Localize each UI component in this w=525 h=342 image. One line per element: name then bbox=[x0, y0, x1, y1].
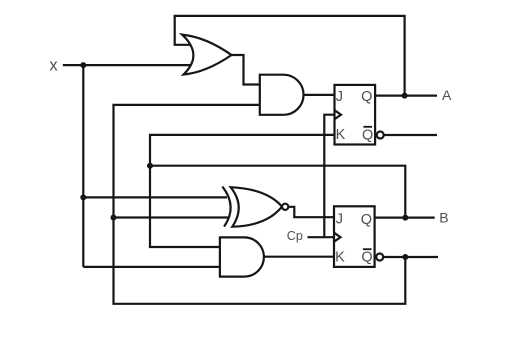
wire: AND2 output to FF2 K bbox=[264, 256, 334, 258]
wire: x input to OR gate lower input bbox=[63, 64, 192, 66]
svg-text:Q: Q bbox=[362, 127, 373, 143]
node: x input junction bbox=[80, 62, 86, 68]
node: FF2.Qbar junction bbox=[402, 254, 408, 260]
wire: x vertical bus down to AND2 row bbox=[82, 65, 84, 267]
flip-flop U2 pin label K bbox=[335, 249, 345, 265]
wire: FF2.Q feedback up and left bbox=[150, 166, 405, 218]
node: FF2.Q junction bbox=[402, 215, 408, 221]
label Cp bbox=[287, 229, 303, 243]
svg-text:J: J bbox=[336, 211, 343, 227]
svg-text:K: K bbox=[336, 127, 346, 143]
flip-flop U2 pin label J bbox=[336, 211, 343, 227]
svg-text:B: B bbox=[439, 210, 448, 226]
svg-text:x: x bbox=[49, 56, 58, 74]
svg-text:A: A bbox=[442, 87, 452, 103]
xnor-gate G3 body bbox=[231, 187, 282, 227]
node: Qbar2 tap to XNOR lower input bbox=[111, 215, 117, 221]
flip-flop U2 Qbar bubble bbox=[376, 254, 383, 261]
wire: Cp to clock chain bbox=[308, 236, 325, 238]
node: junction of Q2 feedback on vertical bbox=[147, 163, 153, 169]
wire: x bus to AND2 lower input bbox=[83, 266, 220, 268]
wire: XNOR output jog to FF2 J bbox=[288, 207, 334, 217]
flip-flop U2 clock triangle bbox=[334, 233, 341, 242]
input label x bbox=[49, 56, 58, 74]
wire: FF2.Qbar stub bbox=[383, 256, 438, 258]
flip-flop U1 Qbar overline bbox=[363, 126, 372, 128]
wire: OR output jog to AND1 upper input bbox=[232, 55, 260, 85]
wire: FF1.Q output stub to A bbox=[375, 94, 437, 96]
svg-text:Q: Q bbox=[361, 250, 372, 266]
flip-flop U1 pin label J bbox=[336, 89, 343, 105]
output label B bbox=[439, 210, 448, 226]
svg-text:Q: Q bbox=[361, 89, 372, 105]
wire: FF2.Q output stub to B bbox=[375, 217, 435, 219]
flip-flop U2 pin label Q bbox=[361, 212, 372, 228]
and-gate G4 bbox=[220, 237, 264, 276]
node: x tap to XNOR bbox=[80, 194, 86, 200]
flip-flop U1 Qbar bubble bbox=[377, 132, 384, 139]
wire: Qbar2 net - AND1 lower input, down left side, bottom feedback bbox=[114, 105, 406, 304]
xnor-gate G3 input arc bbox=[222, 187, 230, 227]
wire: clock chain FF1 to FF2 bbox=[324, 115, 334, 238]
xnor-gate G3 output bubble bbox=[282, 204, 288, 210]
output label A bbox=[442, 87, 452, 103]
wire: feedback FF1.Q up over top to OR gate top input bbox=[175, 16, 405, 96]
svg-text:Q: Q bbox=[361, 212, 372, 228]
or-gate G1 bbox=[182, 35, 232, 75]
flip-flop U1 body bbox=[335, 85, 376, 145]
wire: FF1.Qbar stub bbox=[384, 134, 437, 136]
svg-text:J: J bbox=[336, 89, 343, 105]
svg-text:K: K bbox=[335, 249, 345, 265]
wire: x tap to XNOR upper input bbox=[83, 196, 227, 198]
wire: AND1 output to FF1 J bbox=[304, 94, 335, 96]
flip-flop U1 pin label K bbox=[336, 127, 346, 143]
flip-flop U2 pin label Qbar bbox=[361, 250, 372, 266]
flip-flop U1 clock triangle bbox=[335, 110, 342, 119]
svg-text:Cp: Cp bbox=[287, 229, 303, 243]
and-gate G2 bbox=[260, 75, 304, 115]
flip-flop U1 pin label Qbar bbox=[362, 127, 373, 143]
wire: FF2.Q to FF1.K and AND2 upper input bbox=[150, 135, 335, 247]
flip-flop U2 Qbar overline bbox=[363, 248, 372, 250]
node: FF1.Q junction bbox=[402, 93, 408, 99]
flip-flop U1 pin label Q bbox=[361, 89, 372, 105]
wire: tap to XNOR lower input bbox=[114, 216, 229, 218]
flip-flop U2 body bbox=[334, 206, 375, 267]
